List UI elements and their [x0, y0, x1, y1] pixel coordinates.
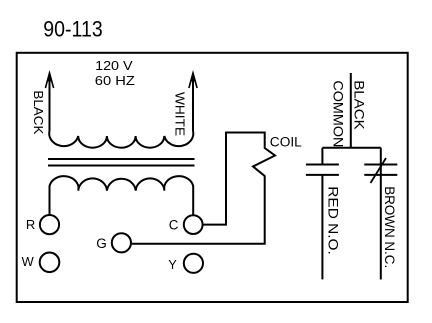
svg-text:WHITE: WHITE: [173, 92, 188, 136]
svg-text:G: G: [96, 236, 107, 251]
svg-text:BROWN N.C.: BROWN N.C.: [382, 186, 397, 268]
svg-text:Y: Y: [168, 257, 177, 272]
svg-text:90-113: 90-113: [43, 16, 102, 41]
svg-text:BLACK: BLACK: [31, 90, 46, 134]
svg-text:R: R: [26, 217, 35, 232]
svg-text:60 HZ: 60 HZ: [95, 73, 135, 88]
svg-text:COIL: COIL: [270, 134, 302, 149]
svg-text:BLACK: BLACK: [352, 80, 368, 130]
svg-text:W: W: [22, 254, 35, 269]
svg-text:COMMON: COMMON: [331, 80, 347, 147]
svg-text:RED N.O.: RED N.O.: [326, 186, 342, 255]
svg-text:C: C: [169, 217, 179, 232]
svg-text:120 V: 120 V: [95, 58, 133, 73]
